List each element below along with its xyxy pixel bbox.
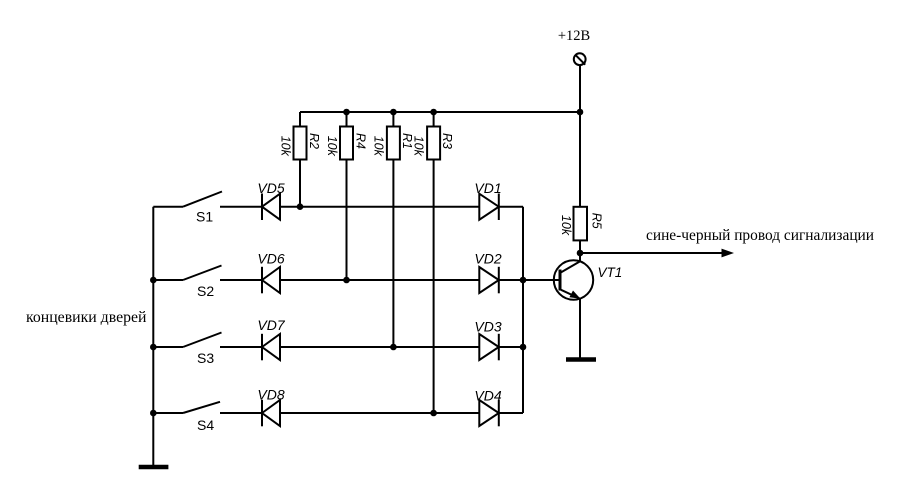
diode VD5 [262, 194, 479, 221]
label концевики дверей [26, 309, 147, 326]
label S4 [197, 417, 214, 433]
label S1 [196, 209, 213, 225]
switch S3 [153, 333, 262, 348]
svg-text:10k: 10k [412, 136, 426, 157]
label S3 [197, 350, 214, 366]
node left rail row4 [150, 410, 157, 417]
svg-text:VD7: VD7 [257, 317, 285, 333]
label VD7 [257, 317, 285, 333]
wire emitter [579, 299, 581, 358]
svg-text:S4: S4 [197, 417, 214, 433]
ground emitter [566, 357, 596, 362]
svg-text:R2: R2 [307, 133, 321, 149]
node left rail row3 [150, 344, 157, 351]
value 10k of R1 [372, 136, 386, 157]
value 10k of R3 [412, 136, 426, 157]
label R2 [307, 133, 321, 149]
label S2 [197, 283, 214, 299]
transistor VT1 [554, 260, 593, 299]
svg-text:10k: 10k [325, 136, 339, 157]
label R3 [440, 133, 454, 149]
label VD6 [257, 251, 284, 267]
svg-text:+12В: +12В [558, 28, 590, 44]
svg-text:концевики дверей: концевики дверей [26, 309, 147, 326]
svg-text:VD5: VD5 [257, 180, 284, 196]
node collector-R5-output [577, 250, 584, 257]
wire terminal to bus [579, 65, 581, 112]
node left rail row2 [150, 277, 157, 284]
resistor R1 [387, 112, 400, 347]
label VD2 [474, 251, 501, 267]
svg-text:R4: R4 [354, 133, 368, 149]
label R4 [354, 133, 368, 149]
wire right rail [522, 207, 524, 413]
diode VD8 [262, 400, 479, 427]
ground left [139, 465, 169, 470]
node bus-R4 [343, 109, 350, 116]
resistor R2 [294, 112, 307, 207]
svg-text:10k: 10k [279, 136, 293, 157]
label +12В [558, 28, 590, 44]
diode VD7 [262, 334, 479, 361]
svg-text:VD2: VD2 [474, 251, 501, 267]
label VD8 [257, 387, 284, 403]
label VD3 [474, 319, 501, 335]
node right rail row3 [520, 344, 527, 351]
label VT1 [598, 265, 623, 280]
svg-text:VD4: VD4 [474, 388, 501, 404]
svg-text:10k: 10k [559, 215, 573, 236]
svg-text:10k: 10k [372, 136, 386, 157]
diode VD1 [479, 194, 523, 221]
label VD4 [474, 388, 501, 404]
node R2-row1 [297, 203, 304, 210]
power terminal +12V [574, 53, 586, 65]
diode VD4 [479, 400, 523, 427]
node R1-row3 [390, 344, 397, 351]
node bus-R5 column [577, 109, 584, 116]
value 10k of R2 [279, 136, 293, 157]
node bus-R1 [390, 109, 397, 116]
svg-text:VD8: VD8 [257, 387, 284, 403]
label R1 [400, 133, 414, 149]
label VD5 [257, 180, 284, 196]
switch S1 [153, 192, 262, 207]
node R4-row2 [343, 277, 350, 284]
wire top bus [300, 111, 580, 113]
switch S2 [153, 266, 262, 281]
node bus-R3 [430, 109, 437, 116]
label VD1 [474, 180, 501, 196]
svg-text:VD6: VD6 [257, 251, 284, 267]
svg-text:VD3: VD3 [474, 319, 501, 335]
wire base [523, 279, 559, 281]
svg-text:R5: R5 [590, 213, 604, 229]
output arrow [580, 249, 734, 258]
svg-text:сине-черный провод сигнализаци: сине-черный провод сигнализации [646, 227, 874, 244]
svg-text:S1: S1 [196, 209, 213, 225]
node right rail row2 [520, 277, 527, 284]
label сине-черный провод сигнализации [646, 227, 874, 244]
svg-text:R3: R3 [440, 133, 454, 149]
svg-text:VD1: VD1 [474, 180, 501, 196]
diode VD3 [479, 334, 523, 361]
switch S4 [153, 402, 262, 413]
diode VD6 [262, 267, 479, 294]
wire left rail [152, 207, 154, 465]
wire collector [579, 253, 581, 261]
label R5 [590, 213, 604, 229]
resistor R5 [574, 112, 588, 253]
resistor R3 [427, 112, 440, 413]
resistor R4 [340, 112, 353, 280]
svg-text:VT1: VT1 [598, 265, 623, 280]
value 10k of R4 [325, 136, 339, 157]
node R3-row4 [430, 410, 437, 417]
svg-text:S2: S2 [197, 283, 214, 299]
value 10k of R5 [559, 215, 573, 236]
svg-text:S3: S3 [197, 350, 214, 366]
diode VD2 [479, 267, 523, 294]
